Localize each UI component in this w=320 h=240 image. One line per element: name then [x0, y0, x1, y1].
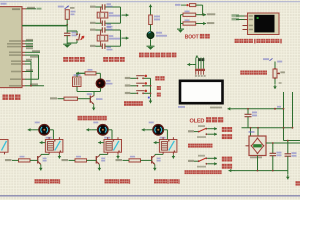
relay RL3 bottom pins	[163, 152, 173, 154]
wiper net label	[280, 71, 285, 73]
Q2 emitter ground arrow	[98, 164, 102, 170]
wire bus right of crystal	[120, 7, 122, 23]
wire key PLUS to common	[144, 85, 151, 87]
U1 pin stub row 9	[22, 78, 25, 80]
wire C7 to lower rail	[247, 123, 249, 128]
crystal stubs	[100, 30, 102, 46]
vertical wire right bus 1	[283, 92, 285, 128]
wire top of RV1	[274, 62, 276, 70]
Q1 emitter ground arrow	[39, 164, 43, 170]
OLED header red bar	[195, 69, 205, 71]
terminal arrows of flame sensor SW2	[207, 127, 217, 136]
wire rail XT2B	[96, 45, 121, 47]
wire rail XT2A	[96, 29, 121, 31]
label text 继电器(风扇)	[35, 179, 61, 184]
resistor R5 (BOOT0)	[183, 11, 196, 17]
net label on top pin wire	[27, 7, 42, 10]
label text 串口终端（模拟手机端）	[235, 39, 282, 44]
junction dots bottom rail	[257, 170, 274, 172]
capacitor C8	[270, 142, 282, 171]
wire left of R5 to ground bus	[181, 15, 184, 29]
label text 人体热释电红外模块	[185, 170, 222, 174]
label text 独立按键	[124, 101, 143, 106]
common key wire down	[150, 78, 152, 97]
svg-text:OLED: OLED	[190, 118, 205, 124]
switch PIR sensor SW3 type label	[197, 166, 206, 168]
terminal screen	[254, 15, 274, 33]
svg-text:BOOT: BOOT	[185, 35, 199, 41]
microcontroller U1 body	[0, 7, 22, 88]
U1 pin stub EA	[22, 85, 25, 87]
relay RL2 bottom pins	[108, 152, 118, 154]
capacitor on rail XT1A	[102, 3, 112, 9]
junction dot BOOT0 node	[202, 14, 204, 16]
relay RL1 label	[46, 137, 52, 139]
OLED header pin labels	[195, 75, 206, 77]
relay RL2 label	[104, 137, 110, 139]
net label XT2A	[90, 29, 96, 31]
net label XT2B	[90, 45, 96, 47]
net label (flame sensor SW2)	[188, 130, 194, 132]
terminal screen cursor pixel	[257, 17, 259, 19]
wire and net label left of base resistor 3	[116, 159, 130, 161]
U1 pin name EA (inside)	[9, 85, 21, 87]
label text 烟雾含量调节	[240, 71, 267, 75]
relay RL1 bottom pins	[49, 152, 59, 154]
terminal arrow (speaker 2)	[86, 128, 97, 131]
OLED display LCD1 body	[180, 81, 223, 103]
LCD1 reference label	[178, 106, 185, 108]
net tag dot (blue) near key ground	[148, 97, 150, 99]
wire bottom of RV1	[274, 79, 276, 84]
wire left of R7 with net label	[50, 97, 64, 99]
capacitor C9	[285, 140, 297, 171]
switch PIR sensor SW3 label	[198, 155, 205, 157]
smoke sensor U3 label	[249, 131, 255, 133]
label text 继电器(模块) right	[154, 179, 180, 184]
resistor R4	[85, 69, 96, 75]
ground arrow (RV1)	[273, 82, 281, 89]
wire upper right to edge	[284, 140, 301, 142]
wire node to MCU RST pin	[22, 24, 67, 26]
virtual terminal body	[248, 13, 280, 35]
label text states of PIR sensor SW3	[222, 157, 232, 169]
smoke sensor U3 (MQ-2)	[249, 136, 266, 156]
push button key MINUS	[136, 90, 147, 95]
wire jumper to BOOT0 node	[196, 5, 203, 15]
label text 复位电路	[63, 57, 85, 62]
push button key SET	[136, 75, 147, 80]
terminal arrow BOOT0 with net label	[199, 13, 215, 16]
ground arrow (keys)	[149, 98, 153, 103]
wire speaker 3 to relay	[164, 130, 168, 140]
relay RL3 label	[160, 137, 166, 139]
transistor Q3	[152, 155, 155, 164]
junction dots right rails	[283, 108, 294, 129]
Q3 emitter ground arrow	[153, 164, 157, 170]
terminal arrow crystal out	[122, 13, 129, 16]
ground arrow under relay 2	[116, 155, 120, 159]
label text 设置	[155, 76, 164, 80]
speaker 2	[98, 125, 109, 136]
wire base resistor to Q1	[30, 159, 38, 161]
U1 reference label	[1, 3, 7, 5]
U1 pin stub GND	[22, 71, 25, 73]
terminal pin names RXD TXD RTS CTS	[249, 15, 253, 30]
sensor lower rail wire	[242, 127, 293, 129]
crystal labels	[109, 12, 122, 16]
wire and net label left of base resistor 1	[5, 159, 19, 161]
U1 pin RST wire to reset circuit	[22, 25, 67, 27]
capacitor on rail XT1B	[102, 21, 112, 28]
wire R2 to node RST	[66, 19, 68, 25]
terminal arrow (buzzer drive)	[76, 72, 82, 75]
terminal arrow into RL1 coil	[40, 141, 46, 144]
power net label VCC (reset)	[58, 5, 75, 9]
terminal arrow bottom rail	[229, 169, 235, 172]
net label (PIR sensor SW3)	[188, 160, 194, 162]
wire TXD with net label	[232, 18, 245, 21]
U1 pin stubs P3.0-P3.2	[22, 41, 25, 47]
U3 left pin stub	[246, 145, 250, 147]
U1 pin name GND (inside)	[11, 71, 21, 73]
U1 pin stubs VCC rows	[22, 61, 25, 64]
relay RL1	[45, 140, 63, 153]
wires VCC rows	[25, 59, 32, 64]
net label for key MINUS	[125, 92, 131, 94]
power arrow (LED branch)	[149, 5, 153, 10]
wire node down to capacitor	[66, 25, 68, 34]
speaker 1	[39, 125, 50, 136]
ground symbol (reset)	[63, 44, 71, 48]
wire row 9 joining bus	[25, 78, 39, 80]
U1 pin stubs P3.4/P3.5	[22, 52, 25, 55]
U1 top pin stub	[22, 8, 26, 10]
switch PIR sensor SW3 (SPDT)	[198, 157, 208, 164]
relay RL3 top pins	[163, 137, 173, 139]
terminal arrow (sensor rail left)	[228, 107, 234, 110]
Q3 labels	[157, 158, 161, 162]
crystal stubs	[100, 7, 102, 23]
wire relay 2 coil pin to transistor collector	[100, 154, 108, 155]
junction node RST	[66, 24, 68, 26]
Q1 labels	[43, 158, 47, 162]
U3 right pin wire to edge	[266, 142, 300, 144]
OLED header pins	[196, 56, 205, 69]
label text 晶振电路	[103, 57, 125, 62]
label text OLED显示屏	[190, 117, 224, 124]
speaker 1 label	[35, 122, 40, 124]
transistor Q1	[38, 155, 41, 164]
wire R6 to arrow	[196, 23, 200, 25]
wire R5 to arrow	[196, 14, 200, 16]
Q4 emitter wire and ground arrow	[92, 104, 96, 110]
vertical bus wire from VCC row	[30, 61, 32, 86]
wire bus 1 rail to upper-right wire	[283, 128, 285, 141]
wire to key SET	[130, 77, 136, 79]
wire rail XT1B	[96, 22, 121, 24]
wire to Q4 base	[78, 98, 91, 100]
jumper J1 at BOOT vcc	[181, 4, 196, 7]
resistor at Q3 base	[129, 156, 141, 162]
wire to key PLUS	[130, 85, 136, 87]
capacitor on rail XT2B	[102, 44, 112, 51]
terminal arrows of PIR sensor SW3	[207, 157, 217, 166]
wire to switch flame sensor SW2	[194, 131, 198, 133]
wire to key MINUS	[130, 92, 136, 94]
junction dot under RV1 column	[274, 106, 281, 110]
wires P3.4/P3.5 with net labels	[25, 50, 40, 58]
label text 加	[157, 86, 161, 90]
wire relay 3 coil pin to transistor collector	[155, 154, 163, 155]
switch flame sensor SW2 label	[198, 125, 205, 127]
speaker 2 label	[93, 122, 98, 124]
ground symbol (LED)	[147, 46, 155, 50]
LED D2 green	[147, 32, 154, 39]
wire button bottom	[67, 40, 77, 43]
wire and net label left of base resistor 2	[62, 159, 76, 161]
push button RESET	[76, 33, 84, 40]
label text 烟雾检测电路 (cut at edge)	[296, 181, 306, 185]
terminal arrow crystal out	[122, 36, 129, 39]
label text 火焰检测模块	[188, 144, 213, 148]
crystal	[97, 12, 108, 18]
resistor R2	[65, 10, 75, 20]
Q4 labels	[87, 93, 103, 100]
resistor at Q1 base	[19, 156, 31, 162]
wire bus right of crystal	[120, 30, 122, 46]
sounder LS1	[96, 79, 105, 88]
ground arrow under relay 3	[172, 155, 176, 159]
label text 减	[157, 93, 161, 97]
LCD1 part number label	[210, 107, 222, 109]
RV1 labels	[263, 58, 282, 62]
wire left of R6 joining ground bus	[181, 23, 184, 25]
wire rail to Q4 collector	[93, 92, 95, 96]
wire relay 1 coil pin to transistor collector	[41, 154, 49, 155]
terminal pin stubs	[243, 16, 248, 30]
U1 pin name XTAL (top, inside)	[12, 8, 20, 10]
relay RL2 top pins	[108, 137, 118, 139]
wire R4 right and down to sounder	[82, 73, 100, 79]
junction dots on key bus	[150, 85, 152, 94]
label text 主芯片	[3, 95, 21, 100]
U1 pin names P3.4/P3.5 (inside)	[9, 52, 21, 56]
net label XT1B	[90, 22, 96, 24]
terminal arrow (speaker 1)	[28, 128, 39, 131]
bottom rail wire of sensor module	[234, 170, 288, 172]
U1 pin names VCC/GND rows (inside)	[11, 60, 21, 64]
junction dot on bus	[30, 85, 32, 87]
capacitor C7	[245, 109, 258, 123]
vertical wire right bus 2	[292, 92, 294, 128]
resistor R6 (BOOT1)	[183, 19, 196, 25]
buzzer bottom wire rail	[77, 87, 101, 92]
wire capacitor to ground	[66, 36, 68, 44]
wire EA with net label	[25, 83, 44, 85]
relay RL3	[159, 140, 177, 153]
capacitor on rail XT2A	[102, 26, 112, 32]
resistor R7 at Q4 base	[64, 97, 78, 100]
wires rail to sensor pins	[250, 127, 259, 136]
terminal arrow (speaker 3)	[142, 128, 153, 131]
wire speaker 2 to relay	[108, 130, 112, 140]
net label for key SET	[125, 77, 131, 79]
wire D2 to ground	[150, 39, 152, 46]
label text 继电器(模块) middle	[105, 179, 131, 184]
U3 part label	[250, 157, 262, 159]
resistor at Q2 base	[75, 156, 87, 162]
terminal arrow into RL2 coil	[98, 141, 104, 144]
wire to R3	[150, 10, 152, 16]
ground arrow (sensor module)	[286, 171, 290, 180]
push button key PLUS	[136, 82, 147, 87]
label text 程序运行指示灯	[139, 53, 176, 58]
wire rail XT1A	[96, 6, 121, 8]
wire branch to button top	[67, 31, 77, 34]
terminal arrow BOOT1 with net label	[199, 22, 214, 25]
net label XT1A	[90, 6, 96, 8]
buzzer top pin wire	[76, 73, 85, 77]
transistor Q4	[90, 96, 94, 105]
terminal arrow into OLED header	[187, 63, 196, 66]
wire RXD with net label	[232, 14, 245, 17]
switch flame sensor SW2 type label	[197, 136, 206, 138]
wire GND with label	[25, 69, 33, 71]
label text BOOT电路	[185, 34, 210, 41]
transistor Q2	[96, 155, 99, 164]
ground arrow under relay 1	[58, 155, 62, 159]
wire speaker 1 to relay	[50, 130, 54, 140]
LS1 labels	[106, 80, 113, 85]
speaker 3 label	[149, 122, 154, 124]
relay RL2	[104, 140, 122, 153]
crystal labels	[109, 35, 122, 39]
wire key MINUS to common	[144, 92, 151, 94]
capacitor C2	[64, 32, 77, 37]
U1 pin name row 9 (inside)	[10, 78, 21, 80]
junction dot C7	[247, 108, 249, 110]
U1 pin names P3.0/P3.1/P3.2 (inside)	[7, 40, 21, 47]
power net label VCC (BOOT)	[175, 4, 181, 6]
OLED header pin stubs to display	[196, 71, 204, 75]
terminal arrow into RL3 coil	[154, 141, 160, 144]
speaker 3	[153, 125, 164, 136]
wire to switch PIR sensor SW3	[194, 160, 198, 162]
relay at left edge (cut off)	[0, 140, 8, 155]
label text states of flame sensor SW2	[222, 127, 232, 139]
wire from U1 top pin	[26, 8, 36, 10]
ground symbol (BOOT)	[177, 29, 184, 33]
wire R3 to D2	[150, 25, 152, 32]
wire base resistor to Q3	[141, 159, 152, 161]
relay RL1 top pins	[49, 137, 59, 139]
Q2 labels	[101, 158, 105, 162]
buzzer BUZ1	[73, 74, 82, 86]
wire key SET to common	[144, 77, 151, 79]
D2 labels	[156, 32, 167, 37]
sensor top rail wire	[234, 108, 284, 110]
wires P3.0-P3.2 with net labels TXD RXD INT	[25, 39, 33, 49]
resistor R3	[149, 15, 160, 25]
crystal	[97, 35, 108, 41]
potentiometer RV1	[273, 68, 280, 79]
wire from P3.5 down the bus	[38, 55, 40, 79]
wire base resistor to Q2	[87, 159, 97, 161]
switch flame sensor SW2 (SPDT)	[198, 128, 208, 135]
label text 声光报警电路	[78, 116, 107, 121]
U3 bottom pin wire down	[257, 156, 259, 171]
net label for key PLUS	[125, 84, 131, 86]
